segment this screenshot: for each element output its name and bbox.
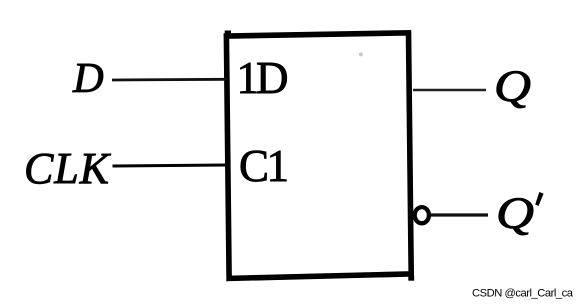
flip-flop body U1 — [226, 33, 411, 279]
scan speck — [359, 52, 363, 56]
svg-text:Q: Q — [494, 62, 531, 111]
svg-text:CSDN @carl_Carl_ca: CSDN @carl_Carl_ca — [472, 287, 574, 299]
svg-text:CLK: CLK — [24, 144, 112, 193]
wire Q-bar output — [431, 213, 489, 216]
wire CLK input — [113, 165, 228, 166]
svg-text:D: D — [72, 55, 104, 102]
wire D input — [112, 78, 227, 81]
svg-text:C1: C1 — [239, 141, 289, 191]
inversion bubble — [415, 207, 429, 223]
svg-text:Q: Q — [496, 189, 534, 238]
wire Q output — [413, 89, 486, 92]
corner stub bottom-right — [408, 276, 414, 281]
svg-text:1D: 1D — [237, 53, 289, 103]
prime mark of Q' — [535, 192, 543, 206]
corner stub top-left — [225, 31, 231, 37]
